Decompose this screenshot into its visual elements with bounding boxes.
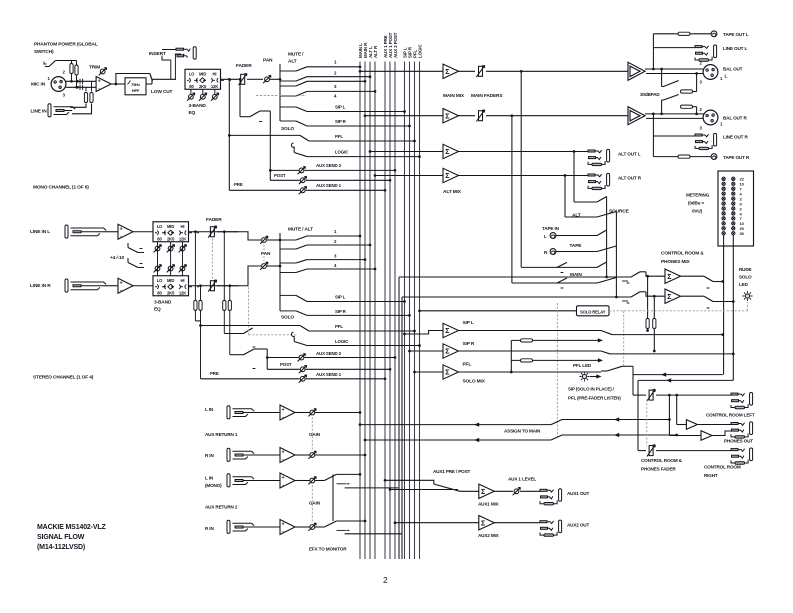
svg-text:Σ: Σ [445, 349, 449, 356]
LED meter R step 22 [732, 177, 735, 180]
svg-text:TRIM: TRIM [89, 65, 100, 71]
wire driver L to XLR pair [645, 68, 704, 70]
wire bus LOGIC [419, 62, 421, 560]
wire SIP R out to meter [459, 350, 602, 352]
switch source TAPE R [597, 246, 616, 252]
wire return 1 R to MAIN R [315, 454, 365, 456]
node post rail (mono) [269, 111, 271, 180]
resistor solo to CR R [653, 295, 656, 298]
svg-text:2K5: 2K5 [167, 290, 175, 295]
svg-text:PRE: PRE [234, 182, 243, 187]
svg-text:CONTROL ROOM &: CONTROL ROOM & [661, 251, 704, 257]
svg-text:12K: 12K [211, 84, 218, 89]
LED meter R step 7 [732, 217, 735, 220]
op-amp return 2 L [251, 480, 280, 482]
pot EQ stereo LO [157, 242, 159, 276]
fader control room/phones L [633, 394, 646, 396]
wire mic hot [66, 80, 96, 82]
wire solo sum rail [510, 340, 512, 372]
svg-text:R IN: R IN [205, 526, 214, 531]
op-amp AUX1 MIX [460, 490, 479, 492]
svg-text:PAN: PAN [261, 251, 271, 257]
op-amp MAIN MIX R [443, 109, 459, 123]
wire aux send 2 to AUX 2 POST [270, 169, 298, 171]
connector TAPE OUT L [711, 31, 717, 37]
resistor sum L post [223, 230, 226, 233]
op-amp return 1 L [251, 412, 280, 414]
op-amp line amp R [118, 278, 133, 293]
svg-text:HPF: HPF [132, 88, 140, 93]
wire driver R to XLR pair [645, 113, 704, 115]
wire return 2 L to efx [345, 487, 399, 489]
switch source MAIN R [557, 278, 567, 283]
wire bus AUX 2 POST [394, 62, 396, 560]
svg-text:Σ: Σ [481, 489, 485, 496]
wire bus PFL [414, 62, 416, 560]
node PRE rail [228, 78, 231, 81]
svg-text:2K5: 2K5 [167, 236, 175, 241]
connector CONTROL ROOM LEFT jack [731, 393, 753, 409]
resistor tape out L [678, 32, 690, 35]
svg-text:PAN: PAN [263, 58, 273, 64]
wire st aux post [267, 368, 300, 370]
wire bus SIP R [409, 62, 411, 560]
switch PFL/SIP select [607, 366, 622, 371]
EQ 3-band stereo L [133, 231, 153, 233]
connector AUX2 OUT jack [540, 520, 562, 536]
pot return 1 R gain [295, 454, 310, 456]
svg-text:PHONES MIX: PHONES MIX [661, 259, 691, 265]
LED meter L step 0 [722, 202, 725, 205]
pot return 1 L gain [295, 412, 310, 414]
svg-text:SIP L: SIP L [463, 320, 474, 326]
amp phones R [701, 431, 712, 441]
LED meter L step 22 [722, 177, 725, 180]
node alt R to source [564, 174, 567, 177]
resistor solo sum A [511, 339, 601, 341]
op-amp solo mix SIP R [443, 344, 459, 358]
switch phantom power [45, 66, 49, 68]
wire CR R down to fader [638, 379, 733, 381]
LED meter L step 7 [722, 187, 725, 190]
wire main R to source [512, 282, 597, 284]
pot return 2 R gain [295, 526, 310, 528]
svg-text:SIP L: SIP L [335, 105, 346, 110]
wire SIP L bus to solo amp [403, 333, 406, 336]
node assign junctions [668, 418, 671, 421]
wire main L to source [521, 266, 597, 268]
switch assign L [551, 420, 562, 425]
pot EQ stereo MID [170, 242, 172, 276]
svg-text:AUX1 PRE / POST: AUX1 PRE / POST [433, 469, 471, 474]
svg-text:METERING: METERING [686, 193, 710, 198]
op-amp ALT MIX L [443, 144, 459, 158]
wire PFL bus to solo amp [413, 371, 416, 374]
svg-text:PHANTOM POWER (GLOBAL: PHANTOM POWER (GLOBAL [34, 42, 98, 48]
pot EQ stereo HI [182, 242, 184, 276]
wire PFL pickup (stereo) [199, 324, 202, 327]
wire line in R to amp [103, 285, 118, 287]
resistor sum R pre [199, 284, 202, 287]
svg-text:+: + [282, 522, 285, 528]
svg-text:CONTROL ROOM: CONTROL ROOM [704, 465, 741, 470]
switch source ALT L [597, 197, 607, 203]
svg-text:AUX 2 POST: AUX 2 POST [393, 32, 398, 58]
filter 75Hz HPF U1 [125, 78, 146, 95]
wire tape out L [653, 33, 678, 35]
svg-text:HI: HI [181, 278, 185, 283]
svg-text:LO: LO [157, 224, 163, 229]
wire bus SIP L [404, 62, 406, 560]
wire CR L down to fader [722, 0, 724, 375]
svg-text:PHONES OUT: PHONES OUT [724, 439, 753, 444]
svg-text:SOURCE: SOURCE [609, 209, 630, 215]
svg-text:LINE IN: LINE IN [31, 109, 48, 115]
wire return 2 R to MAIN R [337, 520, 366, 522]
wire return 2 L to MAIN L [337, 473, 361, 475]
connector ALT OUT R jack [588, 173, 610, 189]
wire meter L feed [723, 171, 725, 181]
svg-text:AUX SEND 1: AUX SEND 1 [316, 183, 342, 188]
LED meter R step 10 [732, 222, 735, 225]
switch CR source R [631, 292, 640, 297]
wire st aux send 1 PRE [201, 378, 300, 380]
op-amp ALT MIX R [443, 168, 459, 182]
switch source ALT R [597, 212, 616, 218]
wire preamp output [111, 83, 125, 85]
wire tape in R [556, 251, 597, 253]
svg-text:SOLO: SOLO [739, 275, 752, 280]
connector PHONES OUT jack [731, 422, 753, 438]
svg-text:Σ: Σ [667, 294, 671, 301]
svg-text:MUTE /: MUTE / [288, 52, 304, 58]
fader main R [459, 115, 476, 117]
svg-text:Σ: Σ [445, 113, 449, 120]
svg-text:+: + [282, 475, 285, 481]
fader stereo R [208, 280, 216, 292]
svg-text:ALT R: ALT R [373, 45, 378, 58]
svg-text:PFL (PRE-FADER LISTEN): PFL (PRE-FADER LISTEN) [568, 396, 621, 401]
resistor sum R post [228, 284, 231, 287]
svg-text:TAPE: TAPE [570, 243, 583, 249]
resistor phantom R1 [71, 61, 73, 82]
wire efx to monitor R [401, 297, 403, 559]
svg-text:POST: POST [280, 362, 292, 367]
svg-text:GAIN: GAIN [309, 432, 321, 437]
op-amp solo mix PFL [443, 365, 459, 379]
wire MAIN R bus to main mix R [364, 114, 367, 117]
svg-text:+4 /-10: +4 /-10 [110, 255, 124, 261]
svg-text:Σ: Σ [445, 69, 449, 76]
svg-text:LO: LO [157, 278, 163, 283]
svg-text:MAIN FADERS: MAIN FADERS [471, 93, 503, 99]
svg-text:2: 2 [383, 575, 388, 585]
svg-text:3-BAND: 3-BAND [189, 103, 207, 109]
svg-text:SIP L: SIP L [335, 295, 346, 300]
fader control room/phones R [638, 450, 646, 452]
op-amp MAIN MIX L [443, 64, 459, 78]
svg-text:ALT OUT R: ALT OUT R [618, 176, 642, 181]
pot AUX SEND 1 (mono) [299, 186, 307, 194]
connector CONTROL ROOM RIGHT jack [731, 448, 753, 464]
pot AUX SEND 1 (stereo) [299, 375, 307, 383]
svg-text:SIGNAL FLOW: SIGNAL FLOW [37, 534, 85, 541]
node main R to source select [511, 114, 514, 117]
svg-text:SIP R: SIP R [335, 309, 347, 314]
wire tape out R [653, 156, 678, 158]
wire PFL pickup (mono) [228, 134, 231, 137]
resistor line in R2 [90, 93, 93, 103]
svg-text:Σ: Σ [667, 274, 671, 281]
svg-text:CONTROL ROOM &: CONTROL ROOM & [641, 458, 683, 463]
LED meter L step 10 [722, 182, 725, 185]
svg-text:BAL OUT R: BAL OUT R [723, 116, 747, 121]
wire solo relay to rude LED (control) [609, 310, 748, 312]
pot EQ HI [214, 89, 216, 94]
wire line out R [653, 135, 695, 137]
node solo pickup rail [239, 78, 242, 81]
svg-text:AUX2 OUT: AUX2 OUT [567, 523, 589, 528]
pot AUX 1 POST (mono) [299, 176, 307, 184]
svg-text:MAIN MIX: MAIN MIX [443, 93, 465, 99]
pot PAN stereo lower [260, 262, 268, 270]
svg-text:L: L [725, 74, 728, 79]
svg-text:LOGIC: LOGIC [335, 150, 349, 155]
wire phones feed R [668, 394, 671, 397]
switch CR post L [681, 275, 705, 277]
wire st aux send 2 [267, 357, 298, 359]
svg-text:Σ: Σ [445, 370, 449, 377]
pot AUX SEND 2 (mono) [298, 167, 306, 175]
op-amp CR mix R [665, 289, 681, 303]
wire bus MAIN R [364, 62, 366, 560]
LED meter R step 4 [732, 192, 735, 195]
svg-text:12K: 12K [179, 236, 186, 241]
resistor line in R1 [84, 93, 87, 103]
connector AUX1 OUT jack [540, 489, 562, 505]
wire SIP L out to meter [459, 330, 602, 332]
svg-text:LINE OUT L: LINE OUT L [723, 46, 747, 51]
wire bus ALT L [369, 62, 371, 560]
svg-text:AUX2 MIX: AUX2 MIX [478, 533, 500, 538]
svg-text:AUX SEND 2: AUX SEND 2 [316, 351, 342, 356]
svg-text:MUTE / ALT: MUTE / ALT [288, 227, 313, 233]
wire eq out L [189, 231, 239, 233]
svg-text:EFX TO MONITOR: EFX TO MONITOR [309, 547, 347, 552]
svg-text:12K: 12K [179, 290, 186, 295]
svg-text:+: + [282, 407, 285, 413]
wire ALT L bus to alt mix L [369, 150, 372, 153]
connector LINE OUT L jack [695, 45, 717, 61]
connector BAL OUT L XLR [703, 65, 718, 80]
svg-text:MACKIE MS1402-VLZ: MACKIE MS1402-VLZ [37, 524, 107, 531]
wire assign L from CR [562, 419, 669, 421]
svg-text:MIC IN: MIC IN [31, 82, 46, 88]
wire bus AUX 1 PRE [384, 62, 386, 560]
wire alt mix R out [459, 175, 589, 177]
svg-text:+: + [120, 226, 123, 232]
svg-text:L: L [544, 234, 547, 239]
resistor phantom R2 [76, 61, 78, 88]
svg-text:PFL: PFL [335, 324, 343, 329]
svg-text:SWITCH): SWITCH) [34, 49, 54, 55]
wire return 1 L to MAIN L [315, 412, 360, 414]
svg-text:2K5: 2K5 [199, 84, 207, 89]
connector TAPE OUT R [711, 154, 717, 160]
svg-text:FADER: FADER [236, 63, 252, 69]
svg-text:R IN: R IN [205, 453, 214, 458]
switch SIP L (mono) [280, 106, 296, 108]
svg-text:ALT: ALT [572, 213, 581, 219]
wire alt mix L out [459, 151, 589, 153]
wire CR mix R input [402, 296, 631, 298]
wire aux2 to jack [494, 522, 540, 524]
svg-text:SOLO: SOLO [281, 315, 294, 321]
svg-text:(0dBu =: (0dBu = [688, 201, 704, 206]
switch CR post R [681, 295, 705, 297]
switch return 2 R efx/main [315, 526, 324, 528]
switch LOGIC (stereo) [291, 332, 294, 336]
switch LOGIC (mono) [291, 143, 294, 147]
op-amp CR mix L [665, 269, 681, 283]
wire line in L to amp [103, 231, 118, 233]
svg-text:AUX1 OUT: AUX1 OUT [567, 491, 589, 496]
svg-text:PFL: PFL [463, 362, 472, 368]
svg-text:+: + [98, 79, 101, 85]
wire tape in L [556, 235, 597, 237]
LED meter L step 4 [722, 192, 725, 195]
wire meter R feed [732, 235, 734, 380]
svg-text:LOW CUT: LOW CUT [151, 89, 173, 95]
op-amp solo mix SIP L [443, 323, 459, 337]
switch assign R [551, 435, 562, 440]
svg-text:EQ: EQ [154, 307, 161, 313]
svg-text:ALT OUT L: ALT OUT L [618, 152, 641, 157]
EQ 3-band (mono) [185, 69, 221, 89]
switch aux post pickup (stereo) [230, 354, 244, 356]
svg-text:TAPE OUT R: TAPE OUT R [723, 155, 750, 160]
svg-text:75Hz: 75Hz [131, 82, 140, 87]
svg-text:LED: LED [739, 282, 749, 287]
svg-text:CONTROL ROOM LEFT: CONTROL ROOM LEFT [706, 413, 755, 418]
wire PFL amp out [459, 371, 602, 373]
resistor tape out R [678, 155, 690, 158]
svg-text:PRE: PRE [210, 371, 219, 376]
wire MAIN L bus to main mix L [359, 70, 362, 73]
svg-text:Σ: Σ [445, 149, 449, 156]
LED meter R step 0 [732, 202, 735, 205]
svg-text:MONO CHANNEL (1 OF 6): MONO CHANNEL (1 OF 6) [33, 185, 89, 191]
pot EQ MID [202, 89, 204, 94]
wire fader R to pan [217, 266, 261, 286]
svg-text:LOGIC: LOGIC [335, 339, 349, 344]
switch SIP L (stereo) [280, 294, 296, 296]
node alt L to source [573, 150, 576, 153]
switch SOLO (mono) [240, 116, 250, 118]
op-amp mic preamp [96, 77, 111, 92]
wire ALT R bus to alt mix R [374, 174, 377, 177]
svg-text:PFL: PFL [335, 134, 343, 139]
svg-text:SOLO MIX: SOLO MIX [463, 379, 486, 385]
resistor solo to CR L [646, 275, 649, 278]
node junction phantom to mic [70, 80, 73, 83]
svg-text:MID: MID [167, 278, 174, 283]
wire bus ALT R [374, 62, 376, 560]
svg-text:PHONES FADER: PHONES FADER [641, 467, 676, 472]
wire mic cold [66, 86, 96, 88]
fader main L [459, 70, 476, 72]
switch SIP R (stereo) [280, 310, 296, 312]
svg-text:0VU): 0VU) [692, 209, 703, 214]
svg-text:SIP R: SIP R [463, 341, 475, 347]
svg-text:TAPE OUT L: TAPE OUT L [723, 32, 749, 37]
LED meter L step 2 [722, 197, 725, 200]
svg-text:LOGIC: LOGIC [417, 44, 422, 58]
resistor solo sum B [511, 359, 601, 361]
svg-text:TAPE IN: TAPE IN [542, 226, 560, 231]
svg-text:30dBPAD: 30dBPAD [640, 92, 660, 97]
svg-text:SOLO: SOLO [281, 126, 294, 132]
amp main out driver R [628, 107, 645, 125]
LED meter R step 4 [732, 212, 735, 215]
svg-text:SIP R: SIP R [335, 119, 347, 124]
switch source TAPE L [597, 230, 607, 236]
resistor pad R [681, 105, 686, 109]
svg-text:GAIN: GAIN [309, 501, 321, 506]
pot AUX SEND 2 (stereo) [298, 354, 306, 362]
svg-text:RIGHT: RIGHT [704, 473, 718, 478]
svg-text:LINE IN L: LINE IN L [30, 229, 50, 235]
pot AUX 1 POST (stereo) [299, 365, 307, 373]
wire aux send 1 PRE to AUX 1 PRE [229, 189, 299, 191]
wire line in to mic bus [70, 104, 86, 108]
svg-text:L IN: L IN [205, 407, 214, 412]
svg-text:LO: LO [189, 72, 195, 77]
svg-text:Σ: Σ [445, 173, 449, 180]
op-amp line amp L [118, 224, 133, 239]
wire bus MAIN L [359, 62, 361, 560]
connector LINE OUT R jack [695, 133, 717, 149]
switch 30dB PAD R [661, 100, 663, 114]
op-amp return 2 R [251, 526, 280, 528]
resistor pad L [681, 89, 686, 93]
svg-text:INSERT: INSERT [149, 51, 166, 57]
node main L to source select [520, 70, 523, 73]
svg-text:POST: POST [274, 173, 286, 178]
wire CR mix L input [399, 276, 631, 278]
wire phones feed L [675, 394, 678, 397]
svg-text:(M14-112LVSD): (M14-112LVSD) [37, 544, 85, 551]
node tape/line L branch [652, 68, 655, 71]
svg-text:EQ: EQ [189, 110, 196, 116]
wire eq out R [189, 285, 239, 287]
connector BAL OUT R XLR [703, 110, 718, 125]
connector ALT OUT L jack [588, 149, 610, 165]
capacitor mic coupling [79, 79, 81, 84]
LED meter L step 7 [722, 217, 725, 220]
LED meter R step 10 [732, 182, 735, 185]
svg-text:+: + [120, 280, 123, 286]
svg-text:MID: MID [167, 224, 174, 229]
svg-text:3-BAND: 3-BAND [154, 300, 172, 306]
op-amp return 1 R [251, 454, 280, 456]
svg-text:FADER: FADER [206, 217, 222, 223]
svg-text:SOLO RELAY: SOLO RELAY [580, 310, 606, 315]
LED meter R step 7 [732, 187, 735, 190]
EQ 3-band stereo R [133, 285, 153, 287]
LED meter R step 30 [732, 232, 735, 235]
svg-text:+: + [282, 450, 285, 456]
